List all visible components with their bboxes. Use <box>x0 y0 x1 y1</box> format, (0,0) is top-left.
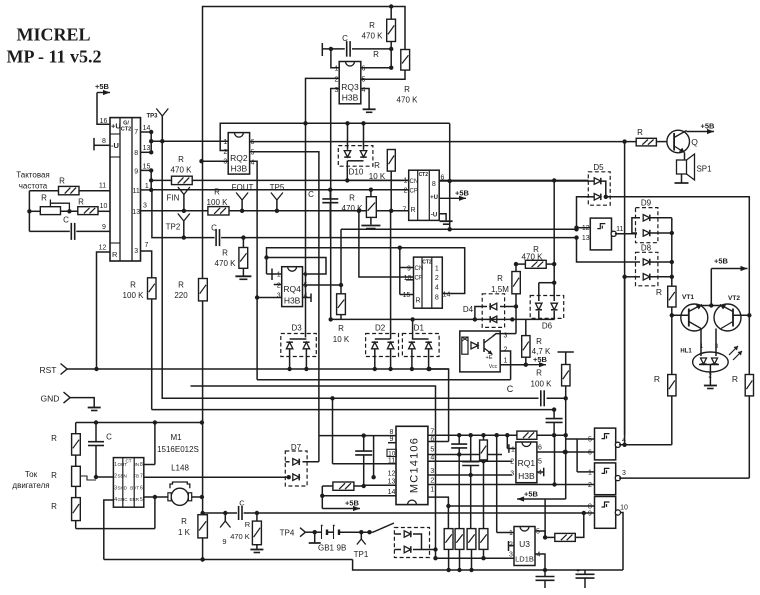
svg-text:7: 7 <box>403 207 407 214</box>
wire (gate A pin5 feed) <box>566 439 595 472</box>
transistor VT2 <box>714 295 752 331</box>
wire <box>564 398 568 499</box>
svg-text:1,5M: 1,5M <box>491 285 509 294</box>
svg-text:5: 5 <box>588 437 592 444</box>
svg-text:1: 1 <box>335 66 339 73</box>
capacitor C (motor) <box>88 423 113 480</box>
svg-text:HL1: HL1 <box>680 349 692 355</box>
wire (RQ1 pin1) <box>507 435 516 453</box>
wire (RQ3 pin6) <box>361 66 394 70</box>
svg-text:9: 9 <box>102 224 106 231</box>
wire (M1 pin4 GNC) <box>104 500 114 560</box>
svg-text:частота: частота <box>19 182 48 191</box>
svg-text:6: 6 <box>250 139 254 146</box>
svg-text:CN: CN <box>415 266 424 272</box>
power +5B (VT) <box>702 257 748 308</box>
capacitor C (pin4-pin3) <box>462 435 479 477</box>
wire (IC3 pins 9/15 feedback) <box>398 246 414 295</box>
svg-text:U3: U3 <box>519 539 530 549</box>
diode pair D6 <box>530 281 564 331</box>
resistor R 100 K (IC1 pin7) <box>123 251 156 300</box>
svg-text:470 K: 470 K <box>215 259 237 268</box>
test point FOUT <box>232 183 254 211</box>
svg-text:6: 6 <box>588 450 592 457</box>
resistor R (Q base) <box>636 128 667 146</box>
svg-text:VT1: VT1 <box>682 294 694 301</box>
svg-text:R: R <box>59 177 65 186</box>
svg-text:2: 2 <box>404 187 408 194</box>
svg-text:8: 8 <box>432 181 436 188</box>
svg-text:1: 1 <box>511 447 515 454</box>
wire <box>200 538 204 562</box>
IC MC14106 <box>387 426 434 504</box>
wire (bus to IC2 pin2) <box>152 188 409 192</box>
svg-text:1: 1 <box>430 487 434 494</box>
svg-text:OUT: OUT <box>118 462 128 467</box>
wire (bus L1) <box>257 379 511 381</box>
wire (RQ3 pin4) and ground <box>361 89 376 113</box>
svg-text:R: R <box>349 194 355 203</box>
svg-text:9: 9 <box>407 266 411 273</box>
svg-text:-U: -U <box>431 213 437 219</box>
resistor R 470 K (to ground) <box>342 190 381 229</box>
svg-text:RQ4: RQ4 <box>283 284 301 294</box>
svg-text:+: + <box>321 523 324 529</box>
svg-text:R: R <box>416 298 421 305</box>
svg-text:8: 8 <box>390 429 394 436</box>
svg-text:6: 6 <box>538 445 542 452</box>
resistor R 470 K (row to D5) <box>151 155 588 185</box>
resistor R (VT2 low) <box>732 315 754 478</box>
svg-text:R: R <box>178 155 184 164</box>
svg-text:R: R <box>51 471 57 480</box>
resonator RQ2 H3B <box>223 133 254 175</box>
capacitor C (RQ3 pin1) <box>322 34 393 59</box>
svg-text:TP5: TP5 <box>270 183 285 192</box>
test point TP4 <box>280 528 322 538</box>
svg-text:H3B: H3B <box>284 296 301 306</box>
svg-text:Тактовая: Тактовая <box>16 171 50 180</box>
svg-text:8: 8 <box>435 295 439 302</box>
svg-text:11: 11 <box>99 183 106 190</box>
wire (RQ2 pin4) <box>250 161 258 379</box>
wire (row 513 to gate C pin9) <box>200 499 594 521</box>
svg-text:1: 1 <box>145 183 149 190</box>
svg-text:+5B: +5B <box>524 490 539 499</box>
wire (RQ4 pin2 stub) <box>274 284 282 286</box>
svg-text:GB1: GB1 <box>318 544 335 553</box>
svg-text:14: 14 <box>443 292 451 299</box>
wire (U3 pin5) and resistor <box>535 513 584 541</box>
svg-text:D3: D3 <box>291 324 302 333</box>
resistor R 220 <box>174 279 207 301</box>
svg-text:H3B: H3B <box>342 93 359 103</box>
svg-text:RST: RST <box>40 365 57 375</box>
svg-text:GND: GND <box>41 394 60 404</box>
svg-text:6: 6 <box>362 66 366 73</box>
svg-text:TP1: TP1 <box>354 550 369 559</box>
diode pair D5 <box>588 163 610 205</box>
svg-text:9: 9 <box>222 537 226 546</box>
svg-text:13: 13 <box>388 479 396 486</box>
svg-text:5: 5 <box>538 459 542 466</box>
svg-text:1516E012S: 1516E012S <box>157 445 199 454</box>
svg-text:H3B: H3B <box>231 164 248 174</box>
svg-text:RQ1: RQ1 <box>518 458 536 468</box>
svg-text:FB: FB <box>133 474 139 479</box>
svg-text:RQ2: RQ2 <box>230 153 248 163</box>
svg-text:R: R <box>374 161 380 170</box>
wire (IC3 pin10 stub) <box>406 279 414 281</box>
wire (RQ2 pin3) <box>199 159 228 163</box>
svg-text:9: 9 <box>588 511 592 518</box>
wire (D5 input from TP2 bus) <box>580 196 589 198</box>
svg-text:R: R <box>654 374 660 384</box>
optocoupler U <box>460 331 508 372</box>
resistor R 470 K (to ground) <box>215 238 252 280</box>
svg-text:ERR: ERR <box>129 497 139 502</box>
wire (D5 output) <box>606 197 750 315</box>
svg-text:D9: D9 <box>641 199 652 208</box>
resistor R 100 K (FOUT row) <box>207 188 229 216</box>
svg-text:R: R <box>536 369 542 378</box>
test point TP2 <box>166 214 190 238</box>
wire (D1 to RST corner) <box>429 369 448 442</box>
svg-text:12: 12 <box>582 225 590 232</box>
svg-text:C: C <box>342 34 348 43</box>
resistor R 10 K <box>387 150 395 211</box>
wire (RQ2 pin1 from TP3) <box>151 140 228 142</box>
wire (RQ3 pin2) <box>306 78 340 337</box>
svg-text:TP3: TP3 <box>146 114 158 120</box>
svg-text:двигателя: двигателя <box>12 481 49 490</box>
svg-text:1: 1 <box>277 272 281 279</box>
svg-text:+5B: +5B <box>533 355 548 364</box>
svg-text:H3B: H3B <box>518 471 535 481</box>
svg-text:+5B: +5B <box>701 122 716 131</box>
IC U3 LD1B <box>509 527 541 566</box>
ground <box>88 407 101 409</box>
svg-text:C: C <box>507 384 514 394</box>
svg-text:100 K: 100 K <box>207 198 229 207</box>
svg-text:3: 3 <box>510 471 514 478</box>
test point FIN <box>167 187 190 211</box>
svg-text:5: 5 <box>536 529 540 536</box>
transistor VT1 <box>672 294 708 331</box>
wire (U3 pin3) <box>436 557 515 559</box>
wire (RQ2 pin5) <box>250 152 319 462</box>
svg-text:+U: +U <box>111 122 121 131</box>
svg-text:SP1: SP1 <box>696 165 712 174</box>
svg-text:+5B: +5B <box>95 82 110 91</box>
capacitor C <box>308 190 338 238</box>
svg-text:1: 1 <box>504 358 508 365</box>
resistor R (VT1 low) <box>654 315 676 445</box>
svg-text:15: 15 <box>403 292 411 299</box>
svg-text:CP: CP <box>410 188 418 194</box>
resistor bank (4x) <box>444 455 488 571</box>
wire (gate out 11 to D9) <box>615 233 637 235</box>
svg-text:2: 2 <box>504 347 508 354</box>
IC counter CT2 (third) <box>403 257 451 308</box>
node RST <box>40 364 68 376</box>
resistor R (pin13) <box>322 482 396 490</box>
svg-text:L148: L148 <box>171 464 189 473</box>
svg-text:14: 14 <box>143 125 151 132</box>
wire (pin1 row) <box>428 497 451 528</box>
svg-text:R: R <box>536 337 542 346</box>
svg-text:+5B: +5B <box>714 257 729 266</box>
resistor R 100 K (right) <box>531 352 574 398</box>
wire (opto pin2 loop) <box>500 351 510 380</box>
wire (IC3 pin14 feedback loop) <box>267 248 465 294</box>
resistor R 10 K (second) <box>333 285 350 344</box>
svg-text:15: 15 <box>143 163 151 170</box>
wire (gate B pin1) <box>577 471 594 473</box>
wire <box>553 180 555 264</box>
svg-text:3: 3 <box>134 248 138 255</box>
svg-text:R: R <box>130 281 136 290</box>
svg-text:8: 8 <box>134 150 138 157</box>
svg-text:1: 1 <box>509 530 513 537</box>
resistor R 470 K (bottom) <box>230 513 263 553</box>
svg-text:FIN: FIN <box>167 194 180 203</box>
svg-text:C: C <box>239 499 245 508</box>
svg-text:R: R <box>181 517 187 526</box>
svg-text:IN: IN <box>135 462 140 467</box>
svg-text:2: 2 <box>435 275 439 282</box>
svg-text:SHD: SHD <box>118 485 128 490</box>
svg-text:3: 3 <box>430 468 434 475</box>
label motor current <box>12 470 49 490</box>
wire (TP2 row) <box>151 190 579 240</box>
terminal (IC1 pin 8) <box>94 138 110 151</box>
resonator RQ4 H3B <box>277 267 308 307</box>
svg-text:Q: Q <box>691 137 698 147</box>
wire (IC2 pin8/6 row to D5) <box>439 180 588 182</box>
wire (opto pin1 +5B) <box>500 355 547 367</box>
wire (pin9 stub) <box>388 442 396 444</box>
label clock input <box>16 171 50 191</box>
svg-text:R: R <box>112 250 118 259</box>
power +5B (IC1 pin 16) <box>95 82 110 125</box>
diode pair D9 <box>632 199 674 243</box>
svg-text:10: 10 <box>620 505 628 512</box>
schmitt trigger gate B (1,2-3) <box>588 463 626 495</box>
svg-text:CT2: CT2 <box>419 172 429 178</box>
resistor R (pin4 pullup) <box>480 435 488 461</box>
wire (M1 pin8 IN) <box>144 423 155 465</box>
diode pair D4 <box>463 294 518 334</box>
svg-text:+5B: +5B <box>455 189 470 198</box>
capacitor C (pin7-pin5) <box>451 435 467 456</box>
svg-text:VT2: VT2 <box>728 295 740 302</box>
svg-text:R: R <box>497 274 503 283</box>
transistor Q <box>667 130 698 153</box>
svg-text:2: 2 <box>335 77 339 84</box>
svg-text:5: 5 <box>140 497 143 503</box>
wire (RQ1 pin4 terminal) <box>537 468 544 477</box>
resistor R (sense a) <box>51 423 80 456</box>
diode pair D2 <box>366 324 399 372</box>
test point TP3 <box>146 109 168 144</box>
wire <box>624 142 626 445</box>
svg-text:D5: D5 <box>593 163 604 172</box>
resonator RQ3 H3B <box>335 62 366 104</box>
wire (pin3 row to RQ1 pin3) <box>428 474 512 476</box>
svg-text:LD1B: LD1B <box>515 555 534 564</box>
wire (bus L2) <box>191 386 436 559</box>
schmitt trigger gate C (8,9-10) <box>588 497 628 529</box>
wire (pin 12 to RST) <box>97 245 111 370</box>
wire (pin5 row) <box>428 454 502 456</box>
svg-text:2: 2 <box>277 283 281 290</box>
svg-text:100 K: 100 K <box>531 380 553 389</box>
switch <box>367 523 394 534</box>
wire (RQ1 pin6 to gate A pin6) <box>537 450 595 454</box>
resistor R (clock) <box>59 186 80 194</box>
svg-text:8: 8 <box>102 138 106 145</box>
IC counter CT2 (main) <box>110 118 141 261</box>
svg-text:R: R <box>41 194 47 203</box>
power +5B (IC2) <box>439 189 469 201</box>
svg-text:CT2: CT2 <box>121 127 131 133</box>
svg-text:13: 13 <box>143 145 151 152</box>
svg-text:12: 12 <box>99 245 107 252</box>
capacitor C (pin8-pin13) <box>355 436 372 489</box>
wire RST bus <box>67 367 449 371</box>
diode pair (power) <box>394 528 437 558</box>
wire (RQ3 pin3) <box>331 89 340 320</box>
svg-text:R: R <box>637 128 643 137</box>
resistor R (RQ1 top) <box>517 431 537 439</box>
svg-text:R: R <box>222 249 228 258</box>
svg-text:1 K: 1 K <box>178 528 191 537</box>
svg-text:C: C <box>308 190 314 199</box>
resistor R 1,5M <box>491 264 520 306</box>
svg-text:10 K: 10 K <box>333 335 350 344</box>
svg-text:3: 3 <box>223 159 227 166</box>
svg-text:CP: CP <box>415 276 423 282</box>
svg-text:2: 2 <box>510 459 514 466</box>
svg-text:R: R <box>656 287 662 297</box>
svg-text:R: R <box>338 324 344 333</box>
svg-text:9B: 9B <box>337 544 347 553</box>
svg-text:+U: +U <box>430 195 438 201</box>
resistor R 470 K (horizontal) <box>514 245 557 268</box>
wire <box>553 264 555 283</box>
svg-text:5: 5 <box>430 447 434 454</box>
wire (IC2 pin1 CN) <box>347 179 408 181</box>
wire (RQ4 pin5) <box>303 283 344 287</box>
wire (RQ2 pin6 bus to Q) <box>250 139 637 143</box>
svg-text:4: 4 <box>435 285 439 292</box>
wire (RQ4 pin1 terminal) <box>267 269 282 281</box>
wire (gate C pin8 row) <box>448 505 594 507</box>
svg-text:TP2: TP2 <box>166 223 181 232</box>
capacitor C (TP2 row) <box>211 224 219 247</box>
wire (top bus) <box>203 4 406 278</box>
wire (bus to gate pin 12) <box>341 227 579 285</box>
resistor R (pin 10) <box>29 198 110 215</box>
wire (RQ4 pin6 loop) <box>267 258 327 275</box>
wire (IC1 output pins 15/9 1/11) <box>141 163 154 249</box>
svg-text:10: 10 <box>100 203 108 210</box>
svg-text:R: R <box>411 207 416 214</box>
wire (U3 pin1 feed) <box>497 435 514 532</box>
svg-text:Ток: Ток <box>25 470 38 479</box>
svg-text:5: 5 <box>303 283 307 290</box>
svg-text:6: 6 <box>303 272 307 279</box>
diode pair D3 <box>281 324 317 372</box>
wire (U3 pin2 terminal) <box>509 541 515 551</box>
diode pair D1 <box>402 324 439 372</box>
wire (U3 pin4) <box>535 554 545 570</box>
svg-text:Vcc: Vcc <box>489 364 498 370</box>
svg-text:7: 7 <box>140 474 143 480</box>
svg-text:D10: D10 <box>349 168 364 177</box>
svg-text:4: 4 <box>536 552 540 559</box>
wire (IC3 pin10 CP feed) <box>359 211 414 277</box>
ground (TP4) <box>309 532 321 543</box>
svg-text:16: 16 <box>100 118 108 125</box>
wire (M1 pin7 FB to D7) <box>144 476 285 478</box>
wire (motor top bus) <box>76 420 204 424</box>
wire (bottom bus 1) <box>104 557 353 561</box>
svg-text:R: R <box>404 85 410 94</box>
capacitor C (bus L4 end) <box>546 410 563 436</box>
wire (bus 558) <box>433 556 514 560</box>
wire (D2 top to R10K line) <box>390 211 392 339</box>
svg-text:470 K: 470 K <box>230 532 250 541</box>
wire (pin12 vertical) <box>371 436 375 480</box>
wire <box>624 277 626 435</box>
schmitt trigger gate A (5,6-4) <box>588 428 626 460</box>
wire (pin 11 row) <box>29 177 110 191</box>
wire (pin14 +5B) <box>320 486 396 509</box>
wire (pin4 row to RQ1 pin2) <box>428 459 512 463</box>
svg-text:+E: +E <box>486 355 493 361</box>
svg-text:470 K: 470 K <box>522 253 544 262</box>
svg-text:MP - 11 v5.2: MP - 11 v5.2 <box>7 47 102 67</box>
svg-text:13: 13 <box>582 235 590 242</box>
wire (RQ4 pin4 terminal) <box>303 294 312 303</box>
svg-text:1: 1 <box>435 266 439 273</box>
svg-text:D6: D6 <box>542 322 553 331</box>
resistor R 4,7 K <box>522 319 551 365</box>
svg-text:BVT: BVT <box>130 485 139 490</box>
svg-text:SEN: SEN <box>118 474 127 479</box>
wire (gate B output) <box>619 477 749 479</box>
svg-text:1: 1 <box>223 139 227 146</box>
resistor R 470 K (RQ3 pin5) <box>361 50 418 105</box>
capacitor (bottom 2, polarized) <box>576 568 595 588</box>
svg-text:2: 2 <box>588 482 592 489</box>
capacitor (bottom 1) <box>536 570 555 588</box>
svg-text:2: 2 <box>223 149 227 156</box>
resistor R (VT1 base) <box>656 218 676 318</box>
wire (D1 top) <box>410 317 414 339</box>
test point TP5 <box>270 183 285 211</box>
diode pair D7 <box>285 443 319 486</box>
svg-text:FOUT: FOUT <box>232 183 254 192</box>
test point 9 <box>220 513 230 546</box>
svg-text:3: 3 <box>622 470 626 477</box>
wire (pin6 stub) <box>428 441 449 443</box>
speaker SP1 <box>675 153 713 184</box>
svg-text:CT2: CT2 <box>422 260 432 266</box>
LED HL1 <box>680 329 728 389</box>
